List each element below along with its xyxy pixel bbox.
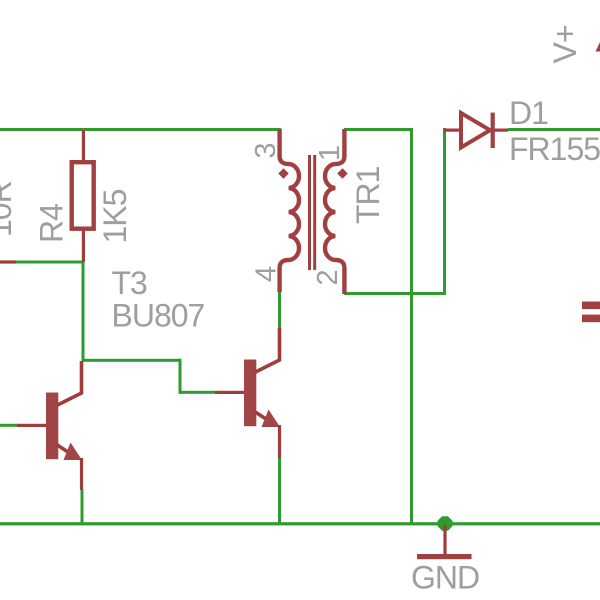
svg-text:D1: D1 <box>509 95 548 131</box>
transformer primary polarity dot <box>278 168 288 178</box>
transformer TR1 core <box>308 155 316 270</box>
resistor R4 value 1K5 <box>97 189 133 243</box>
transistor Q1 base bar <box>46 393 58 460</box>
capacitor plates at right edge <box>582 302 600 323</box>
wire horizontal into T3 base <box>179 391 216 394</box>
transformer pin number 4 <box>251 266 283 282</box>
diode D1 cathode pin <box>494 129 508 132</box>
svg-text:1K5: 1K5 <box>97 189 133 243</box>
transistor T3 name label <box>112 265 148 301</box>
wire top-left net to transformer pin 3 <box>0 128 281 131</box>
wire vertical diode anode down to pin2 net <box>443 128 446 295</box>
svg-text:T3: T3 <box>112 265 148 301</box>
svg-text:2: 2 <box>312 269 344 285</box>
transformer pin number 2 <box>312 269 344 285</box>
wire transformer pin 1 to corner <box>344 128 413 131</box>
ground symbol GND <box>417 525 472 559</box>
wire T3 emitter to bottom net <box>278 457 281 525</box>
off-page resistor value 10R <box>0 181 18 237</box>
wire horizontal collector node to base link <box>82 359 182 362</box>
wire diode cathode to right edge <box>508 128 600 131</box>
transistor Q1 emitter <box>57 443 84 491</box>
svg-text:10R: 10R <box>0 181 18 237</box>
wire vertical R4 bottom to T3 collector node <box>82 261 85 362</box>
svg-text:FR155: FR155 <box>509 131 600 167</box>
svg-text:BU807: BU807 <box>112 298 205 334</box>
wire Q1 emitter to bottom net <box>81 489 84 525</box>
diode D1 cathode bar <box>491 113 495 149</box>
resistor R4 body <box>72 162 94 229</box>
diode D1 anode wire <box>444 129 461 132</box>
svg-text:1: 1 <box>314 145 346 161</box>
transformer pin number 3 <box>250 142 282 158</box>
svg-text:4: 4 <box>251 266 283 282</box>
wire transformer pin 2 horizontal <box>344 292 446 295</box>
transistor Q1 collector <box>57 361 82 406</box>
svg-text:TR1: TR1 <box>350 166 386 224</box>
diode D1 value FR155 <box>509 131 600 167</box>
wire left edge to Q1 base <box>0 424 18 427</box>
transistor T3 collector <box>255 328 280 373</box>
supply V+ label <box>547 25 583 63</box>
transformer TR1 secondary winding with pins 1,2 <box>325 129 344 294</box>
transformer TR1 label <box>350 166 386 224</box>
svg-text:GND: GND <box>411 560 479 596</box>
transformer TR1 primary winding with pins 3,4 <box>280 129 299 292</box>
transistor T3 base pin <box>215 391 244 394</box>
transformer secondary polarity dot <box>337 168 347 178</box>
svg-text:V+: V+ <box>547 25 583 63</box>
transistor Q1 base pin <box>17 424 46 427</box>
ground label GND <box>411 560 479 596</box>
wire bottom ground net <box>0 522 600 525</box>
diode D1 triangle <box>461 113 490 148</box>
junction dot at ground net <box>437 516 452 531</box>
wire horizontal at R4 bottom node <box>16 261 84 264</box>
svg-text:R4: R4 <box>34 204 70 243</box>
svg-text:3: 3 <box>250 142 282 158</box>
supply symbol V+ arrow fragment <box>596 42 600 52</box>
transistor T3 value BU807 <box>112 298 205 334</box>
pin stub of off-page resistor 10R <box>0 260 16 263</box>
wire transformer pin 4 down <box>278 291 281 328</box>
transformer pin number 1 <box>314 145 346 161</box>
resistor R4 pins <box>82 130 85 262</box>
resistor R4 label <box>34 204 70 243</box>
transistor T3 base bar <box>244 360 256 427</box>
diode D1 name label <box>509 95 548 131</box>
wire vertical from pin1 corner down to bottom net <box>410 128 413 525</box>
transistor T3 emitter <box>255 410 282 459</box>
wire vertical base link <box>179 359 182 394</box>
